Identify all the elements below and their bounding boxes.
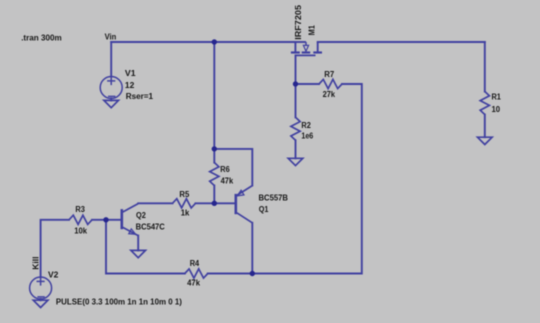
- svg-text:Kill: Kill: [30, 257, 40, 270]
- node junction R6/Q1 emitter wire: [212, 146, 217, 151]
- ground below R1: [478, 137, 493, 144]
- wire V2 to R3: [41, 220, 69, 277]
- svg-text:R2: R2: [301, 120, 311, 130]
- resistor R3: [69, 215, 92, 224]
- svg-text:Q1: Q1: [259, 204, 269, 214]
- svg-text:V1: V1: [125, 68, 136, 78]
- wire R1 top lead: [484, 42, 486, 92]
- svg-text:R5: R5: [179, 189, 189, 199]
- wire V2 bottom lead: [40, 299, 42, 300]
- transistor Q1: [236, 186, 253, 223]
- svg-text:Vin: Vin: [105, 32, 117, 42]
- ground below V2: [33, 300, 48, 307]
- wire Q1 collector down: [251, 223, 253, 274]
- ground below Q2: [131, 250, 146, 257]
- node junction gate/R7/R2: [293, 81, 298, 86]
- svg-text:R7: R7: [324, 69, 334, 79]
- transistor Q2: [122, 204, 138, 236]
- svg-text:R1: R1: [492, 91, 502, 101]
- ground below V1: [104, 100, 119, 107]
- svg-text:R6: R6: [220, 164, 230, 174]
- wire R1 bottom lead: [484, 115, 486, 138]
- wire Vin rail left: [111, 41, 295, 43]
- wire R7 left lead to gate node: [296, 83, 320, 85]
- svg-text:R3: R3: [75, 204, 85, 214]
- wire Q2 collector to R5: [138, 202, 172, 204]
- svg-text:BC557B: BC557B: [259, 192, 289, 202]
- wire R5 right lead to node: [196, 202, 215, 204]
- wire Vin rail right (drain to R1): [318, 41, 485, 43]
- wire rail junction down to R6: [213, 42, 215, 163]
- resistor R6: [210, 163, 219, 186]
- svg-text:10: 10: [492, 104, 501, 114]
- svg-text:12: 12: [125, 80, 135, 90]
- node junction R3/Q2 base/R4: [103, 217, 108, 222]
- wire Q2 emitter to ground: [137, 236, 139, 251]
- resistor R5: [173, 199, 196, 208]
- svg-text:27k: 27k: [323, 89, 336, 99]
- svg-text:V2: V2: [48, 269, 59, 279]
- svg-text:Q2: Q2: [136, 210, 146, 220]
- svg-text:BC547C: BC547C: [136, 222, 165, 232]
- ground below R2: [288, 158, 303, 165]
- node junction R4/Q1 collector: [250, 271, 255, 276]
- wire R4 right to R7: [208, 84, 362, 274]
- svg-text:10k: 10k: [74, 225, 87, 235]
- wire V1 bottom lead: [110, 98, 112, 100]
- svg-text:.tran 300m: .tran 300m: [21, 32, 62, 42]
- resistor R2: [291, 117, 300, 140]
- resistor R4: [185, 269, 208, 278]
- wire R6 bottom lead: [213, 186, 215, 204]
- resistor R7: [319, 79, 342, 88]
- wire base node down to R4 row: [106, 220, 185, 274]
- wire MOSFET gate lead: [295, 55, 297, 84]
- wire Q1 emitter to node: [214, 149, 252, 186]
- resistor R1: [480, 92, 489, 115]
- node junction Vin/R6: [212, 39, 217, 44]
- wire R3 to Q2 base: [92, 219, 122, 221]
- node junction R6/R5/Q1 base: [212, 201, 217, 206]
- svg-text:Rser=1: Rser=1: [126, 91, 154, 101]
- voltage source V1: [100, 77, 122, 99]
- svg-text:IRF7205: IRF7205: [293, 5, 303, 40]
- svg-text:PULSE(0 3.3 100m 1n 1n 10m 0 1: PULSE(0 3.3 100m 1n 1n 10m 0 1): [56, 297, 182, 307]
- voltage source V2: [30, 277, 52, 299]
- svg-text:47k: 47k: [187, 277, 200, 287]
- svg-text:M1: M1: [306, 25, 316, 35]
- wire node to Q1 base: [214, 202, 236, 204]
- svg-text:47k: 47k: [221, 175, 234, 185]
- svg-text:1e6: 1e6: [301, 131, 313, 141]
- wire gate node down to R2: [295, 84, 297, 117]
- wire V1 top: [110, 42, 112, 77]
- svg-text:R4: R4: [190, 258, 200, 268]
- svg-text:1k: 1k: [181, 208, 190, 218]
- wire R2 bottom lead: [295, 140, 297, 158]
- MOSFET M1: [291, 42, 322, 55]
